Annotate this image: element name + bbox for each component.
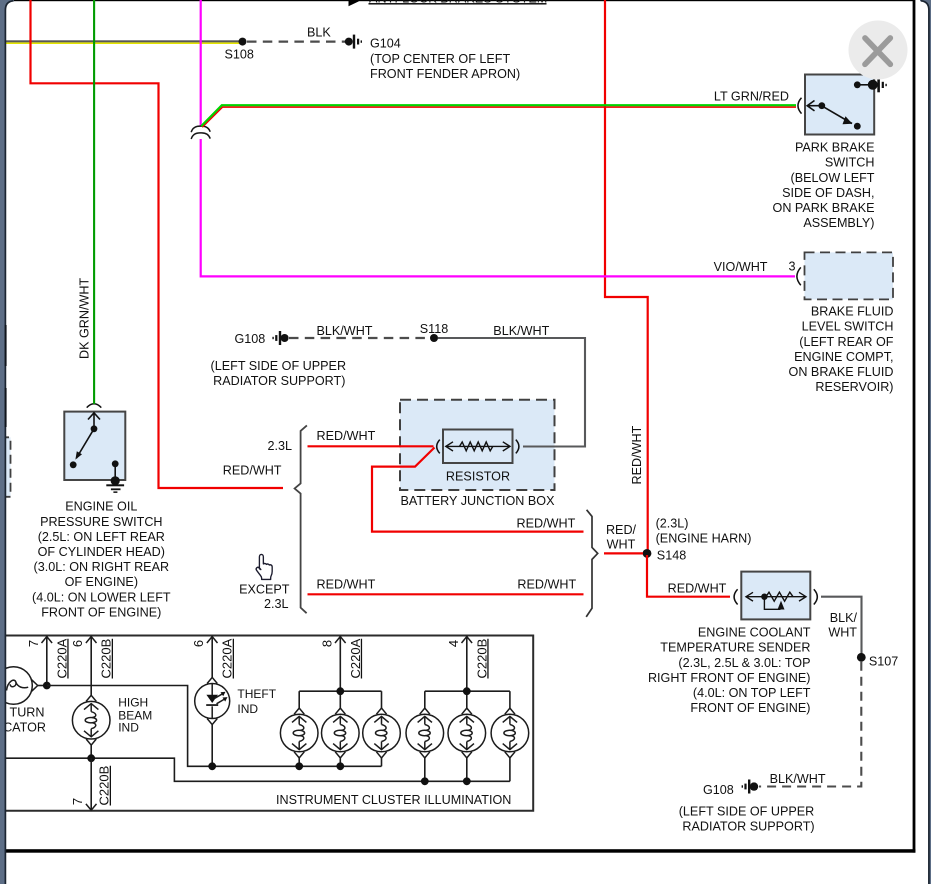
svg-text:6: 6 [191, 640, 206, 647]
svg-text:G104: G104 [370, 37, 401, 51]
coolant sender symbol [746, 592, 806, 609]
wire RED/WHT from S148 down and right to coolant sender [647, 555, 730, 597]
oil switch ground [111, 476, 120, 485]
svg-text:BATTERY JUNCTION BOX: BATTERY JUNCTION BOX [401, 494, 556, 508]
connector ) right of resistor [516, 440, 519, 454]
svg-text:THEFT: THEFT [237, 687, 276, 701]
wire feed 4/C220B [466, 636, 468, 691]
svg-text:ANTI-LOCK BRAKES SYSTEM: ANTI-LOCK BRAKES SYSTEM [369, 0, 547, 5]
svg-text:3: 3 [788, 260, 795, 274]
connector pin labels (rotated) [26, 638, 490, 805]
svg-text:RED/WHT: RED/WHT [317, 429, 376, 443]
svg-text:4: 4 [446, 640, 461, 647]
svg-text:BLK/WHT: BLK/WHT [317, 324, 373, 338]
wire BLK/WHT coolant sender to S107 [821, 597, 862, 653]
park brake switch box [805, 75, 874, 135]
svg-text:C220A: C220A [220, 638, 235, 678]
svg-text:S118: S118 [420, 322, 448, 336]
svg-text:WHT: WHT [607, 538, 636, 552]
splice S108 [239, 38, 247, 46]
junction dot high beam [87, 754, 95, 762]
svg-text:(LEFT REAR OF: (LEFT REAR OF [799, 335, 894, 349]
svg-text:2.3L: 2.3L [267, 439, 292, 453]
mouse cursor [256, 554, 272, 579]
battery junction box (dashed) [400, 400, 555, 490]
svg-text:FRONT OF ENGINE): FRONT OF ENGINE) [690, 701, 810, 715]
svg-text:IND: IND [237, 702, 258, 716]
illumination lamp 1 [280, 708, 318, 758]
svg-text:ON BRAKE FLUID: ON BRAKE FLUID [789, 365, 894, 379]
wires lamps 4-6 bottoms to bus [424, 758, 426, 781]
bus: high-beam/lamps4-6 [6, 758, 510, 781]
junction dot turn indicator [43, 682, 51, 690]
svg-text:S148: S148 [657, 549, 686, 563]
splice S118 [430, 334, 438, 342]
svg-text:FRONT FENDER APRON): FRONT FENDER APRON) [370, 67, 520, 81]
title arrow (cut off at top) [349, 0, 360, 6]
svg-text:ON PARK BRAKE: ON PARK BRAKE [773, 201, 875, 215]
connector arrows at cluster top edge [42, 637, 473, 644]
brake fluid level switch box (dashed) [805, 252, 894, 299]
svg-text:RESERVOIR): RESERVOIR) [815, 380, 893, 394]
svg-text:LT GRN/RED: LT GRN/RED [714, 89, 789, 103]
wire BLK/WHT dashed S107 to G108 (lower) [759, 662, 861, 787]
wire RED/WHT except-2.3L branch [308, 593, 584, 595]
resistor symbol inside box [446, 442, 510, 451]
high beam / theft labels [118, 687, 277, 735]
splice S148 [643, 549, 652, 558]
wire theft bottom to bus [211, 725, 213, 767]
svg-text:(2.5L: ON LEFT REAR: (2.5L: ON LEFT REAR [38, 530, 165, 544]
svg-text:RADIATOR SUPPORT): RADIATOR SUPPORT) [213, 374, 345, 388]
svg-text:(3.0L: ON RIGHT REAR: (3.0L: ON RIGHT REAR [34, 560, 170, 574]
svg-text:BLK/WHT: BLK/WHT [770, 772, 826, 786]
schematic frame top border [6, 0, 915, 1]
wire BLK dashed S108 to G104 [247, 40, 345, 42]
illumination lamp 2 [322, 708, 360, 758]
connector ) right of coolant sender [814, 589, 818, 604]
lamp bus top right group [425, 690, 510, 692]
ground G108 (lower) [750, 782, 758, 790]
svg-text:INSTRUMENT CLUSTER ILLUMINATIO: INSTRUMENT CLUSTER ILLUMINATION [276, 793, 511, 807]
ground G104 [345, 38, 353, 46]
illumination lamp 6 [491, 708, 529, 758]
instrument cluster box [6, 636, 533, 811]
turn indicator (cut off at left) [0, 667, 32, 705]
svg-text:VIO/WHT: VIO/WHT [714, 260, 768, 274]
svg-text:HIGH: HIGH [118, 696, 148, 710]
svg-text:OF CYLINDER HEAD): OF CYLINDER HEAD) [38, 545, 165, 559]
svg-text:C220A: C220A [54, 638, 69, 678]
wire BLK/WHT solid S118 to resistor right terminal [438, 338, 585, 447]
svg-text:INDICATOR: INDICATOR [0, 720, 46, 734]
svg-text:SIDE OF DASH,: SIDE OF DASH, [782, 186, 874, 200]
svg-text:S108: S108 [225, 47, 254, 61]
svg-text:(2.3L, 2.5L & 3.0L: TOP: (2.3L, 2.5L & 3.0L: TOP [678, 656, 810, 670]
wire feed 6/C220A [211, 636, 213, 677]
svg-text:LEVEL SWITCH: LEVEL SWITCH [802, 320, 894, 334]
wire RED/WHT 2.3L branch to resistor left terminal [308, 445, 434, 447]
close button [849, 21, 908, 80]
svg-text:RESISTOR: RESISTOR [446, 469, 510, 483]
svg-text:PRESSURE SWITCH: PRESSURE SWITCH [40, 515, 162, 529]
wire BLK/WHT dashed G108 to S118 [289, 337, 430, 339]
park brake ground [868, 80, 878, 90]
bus: turn/theft/lamps1-3 [47, 686, 382, 767]
schematic frame right border [913, 0, 916, 853]
svg-text:IND: IND [118, 721, 139, 735]
svg-text:(4.0L: ON TOP LEFT: (4.0L: ON TOP LEFT [693, 686, 811, 700]
illumination lamp 4 [406, 708, 444, 758]
turn indicator label [0, 706, 46, 735]
svg-text:C220A: C220A [348, 638, 363, 678]
svg-text:(BELOW LEFT: (BELOW LEFT [791, 171, 875, 185]
svg-text:OF ENGINE): OF ENGINE) [65, 575, 138, 589]
svg-text:(ENGINE HARN): (ENGINE HARN) [656, 532, 752, 546]
oil switch internals [75, 413, 115, 480]
wire DK GRN/WHT vertical [93, 0, 95, 404]
svg-text:C220B: C220B [474, 639, 489, 679]
engine coolant temperature sender box [741, 572, 810, 620]
svg-text:RED/WHT: RED/WHT [517, 577, 576, 591]
wire RED/WHT right (vertical x605, jog right, down x647.7 to S148) [605, 0, 648, 551]
svg-text:BLK: BLK [307, 25, 331, 39]
svg-text:RED/WHT: RED/WHT [668, 581, 727, 595]
connector ( left of resistor [437, 440, 440, 454]
svg-text:RED/: RED/ [606, 523, 637, 537]
svg-text:(TOP CENTER OF LEFT: (TOP CENTER OF LEFT [370, 52, 510, 66]
illumination lamp 5 [448, 708, 486, 758]
junction dot theft [208, 762, 216, 770]
svg-text:TURN: TURN [10, 706, 45, 720]
wire high beam bottom to bus [90, 745, 92, 758]
wire RED/WHT from resistor left terminal down to middle branch [372, 448, 584, 532]
svg-text:BRAKE FLUID: BRAKE FLUID [811, 305, 894, 319]
svg-text:G108: G108 [703, 783, 734, 797]
lamp bus top left group [299, 690, 381, 692]
wires lamps 1-3 bottoms to bus [298, 758, 300, 766]
wire break symbol on VIO/WHT [191, 126, 210, 132]
svg-text:(4.0L: ON LOWER LEFT: (4.0L: ON LOWER LEFT [32, 590, 171, 604]
engine oil pressure switch box [64, 412, 125, 480]
svg-text:G108: G108 [235, 332, 266, 346]
illumination lamp 3 [363, 708, 401, 758]
svg-text:RED/WHT: RED/WHT [517, 516, 576, 530]
svg-text:ENGINE COOLANT: ENGINE COOLANT [698, 626, 811, 640]
svg-text:TEMPERATURE SENDER: TEMPERATURE SENDER [660, 641, 810, 655]
svg-text:7: 7 [70, 798, 85, 805]
svg-text:(LEFT SIDE OF UPPER: (LEFT SIDE OF UPPER [679, 804, 815, 818]
wire LT GRN/RED diagonal + horizontal to park brake switch [202, 107, 796, 127]
connector ( at park brake switch [798, 98, 802, 114]
connector ( left of coolant sender [734, 589, 738, 604]
svg-text:RED/WHT: RED/WHT [630, 425, 644, 484]
wire VIO/WHT (magenta) vertical + elbow to brake fluid switch [200, 0, 202, 126]
dialog chrome: right slate border with rounded corner [920, 0, 931, 884]
wire feed 6/C220B [90, 636, 92, 695]
svg-text:PARK BRAKE: PARK BRAKE [795, 141, 875, 155]
svg-text:(2.3L): (2.3L) [656, 516, 689, 530]
high beam indicator lamp [72, 695, 110, 745]
partial dashed box at left edge [0, 437, 11, 497]
svg-text:C220B: C220B [97, 766, 112, 806]
svg-text:C220B: C220B [99, 639, 114, 679]
svg-text:ENGINE COMPT,: ENGINE COMPT, [794, 350, 893, 364]
svg-text:6: 6 [70, 640, 85, 647]
wire feed 7/C220A [46, 636, 48, 682]
svg-text:ASSEMBLY): ASSEMBLY) [803, 216, 874, 230]
theft indicator LED [195, 677, 230, 724]
resistor R box inside BJB [443, 430, 513, 464]
partial solid box edge fragments at left border [5, 325, 7, 366]
wire feed 8/C220A [339, 636, 341, 691]
svg-text:RIGHT FRONT OF ENGINE): RIGHT FRONT OF ENGINE) [648, 671, 811, 685]
connector arrow at cluster bottom edge [86, 804, 97, 810]
svg-text:RED/WHT: RED/WHT [223, 464, 282, 478]
distribution bracket right [586, 510, 598, 617]
svg-text:FRONT OF ENGINE): FRONT OF ENGINE) [41, 605, 161, 619]
svg-text:2.3L: 2.3L [264, 597, 289, 611]
svg-text:WHT: WHT [828, 626, 857, 640]
wire down to bottom connector 7/C220B [90, 758, 92, 810]
svg-text:8: 8 [319, 640, 334, 647]
svg-text:RADIATOR SUPPORT): RADIATOR SUPPORT) [682, 820, 814, 834]
connector arc above oil switch [87, 404, 102, 408]
svg-text:DK GRN/WHT: DK GRN/WHT [78, 278, 92, 359]
svg-text:S107: S107 [869, 654, 898, 668]
schematic frame bottom border [6, 849, 915, 853]
wire RED/WHT from right bracket to S148 [604, 552, 643, 554]
svg-text:EXCEPT: EXCEPT [239, 583, 290, 597]
svg-text:RED/WHT: RED/WHT [317, 577, 376, 591]
svg-text:SWITCH: SWITCH [825, 156, 875, 170]
svg-text:BLK/: BLK/ [830, 611, 858, 625]
dialog chrome: left slate border with rounded corner [0, 0, 14, 884]
svg-text:7: 7 [26, 640, 41, 647]
wire GRY/YEL horizontal top [6, 40, 243, 42]
distribution brace left [295, 425, 307, 613]
svg-text:BLK/WHT: BLK/WHT [493, 324, 549, 338]
svg-text:(LEFT SIDE OF UPPER: (LEFT SIDE OF UPPER [211, 359, 347, 373]
splice S107 [857, 653, 866, 662]
ground G108 (upper) [281, 334, 289, 342]
wire RED/WHT left (vertical at x30.5, across, down x158.5, right to brace) [31, 0, 284, 488]
park brake switch internals [807, 85, 872, 125]
connector ( at brake fluid switch [797, 267, 801, 285]
svg-text:ENGINE OIL: ENGINE OIL [65, 500, 137, 514]
